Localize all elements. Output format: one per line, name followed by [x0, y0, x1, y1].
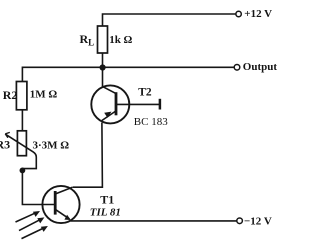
label T2 [138, 86, 152, 98]
svg-text:RL: RL [80, 32, 95, 47]
label RL [80, 32, 95, 47]
light arrow 1 into T1 [16, 211, 41, 222]
label -12 V [244, 216, 272, 228]
label 1M ohm [30, 89, 58, 101]
wire -12V rail [71, 220, 237, 222]
label TIL 81 [90, 206, 121, 218]
transistor T2 base bar [115, 92, 118, 115]
svg-text:T2: T2 [138, 86, 152, 98]
svg-text:Output: Output [243, 61, 278, 73]
svg-text:3·3M Ω: 3·3M Ω [33, 139, 70, 151]
light arrow 3 into T1 [22, 226, 48, 239]
label R2 [3, 88, 18, 102]
transistor Q T1 body [42, 186, 79, 223]
svg-text:TIL 81: TIL 81 [90, 206, 121, 218]
transistor T2 emitter arrow (points to base) [104, 112, 111, 118]
terminal +12V [236, 11, 241, 16]
transistor T1 collector lead [55, 187, 72, 194]
svg-text:R2: R2 [3, 88, 18, 102]
label +12 V [244, 8, 272, 20]
svg-text:T1: T1 [100, 192, 114, 206]
wire node to T2 collector [102, 67, 104, 86]
transistor T1 emitter lead [55, 209, 69, 219]
wire T2 emitter down and left to T1 collector [73, 123, 103, 188]
svg-text:1M Ω: 1M Ω [30, 89, 58, 101]
svg-text:1k Ω: 1k Ω [109, 34, 132, 46]
svg-text:−12 V: −12 V [244, 216, 272, 228]
node junction dot below R3 [20, 168, 26, 174]
terminal Output [234, 65, 240, 71]
label Output [243, 61, 278, 73]
transistor T2 emitter lead [102, 111, 116, 121]
wire T2 base lead [116, 103, 160, 105]
transistor Q T2 body [91, 85, 129, 123]
terminal -12V [237, 218, 243, 224]
label BC 183 [134, 116, 168, 128]
wire R3 node down to T1 base [22, 170, 55, 204]
resistor R3 wiper arrow [5, 132, 36, 168]
label R3 [0, 138, 10, 152]
wire +12V rail [103, 14, 236, 26]
transistor T2 collector lead [102, 86, 116, 93]
wire RL to output node [102, 53, 104, 67]
node junction dot at RL/output [100, 64, 106, 70]
terminal bar at T2 base [159, 99, 162, 110]
wire R2 to R3 [21, 110, 23, 131]
resistor RL [98, 26, 108, 53]
label T1 [100, 192, 114, 206]
wire output line [22, 67, 234, 81]
label 1k ohm [109, 34, 132, 46]
label 3.3M ohm [33, 139, 70, 151]
resistor R3 (variable) [17, 131, 26, 156]
svg-text:R3: R3 [0, 138, 10, 152]
svg-text:+12 V: +12 V [244, 8, 272, 20]
svg-text:BC 183: BC 183 [134, 116, 168, 128]
light arrow 2 into T1 [19, 217, 44, 230]
transistor T1 base bar [54, 191, 57, 215]
resistor R2 [16, 82, 27, 110]
transistor T1 emitter arrow [64, 215, 70, 220]
